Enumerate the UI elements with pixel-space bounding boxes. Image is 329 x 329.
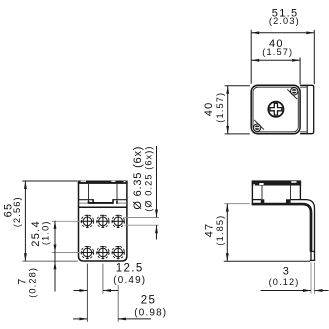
- bracket plate thick bar and bend (side view): [252, 204, 311, 251]
- dim 65 extension line top: [22, 180, 77, 182]
- hidden edge line left: [79, 202, 89, 204]
- svg-text:(0.28): (0.28): [27, 267, 37, 298]
- dim line 25.4 and 7: [54, 221, 56, 292]
- sensor cap inner vertical right: [116, 184, 118, 203]
- svg-text:12.5: 12.5: [116, 263, 144, 275]
- dim line 3: [261, 290, 312, 292]
- hole diameter leader/dim line: [156, 146, 158, 218]
- mounting screw 5 (front view): [97, 246, 110, 259]
- vertical end blob right: [116, 201, 118, 204]
- dim line 51.5: [251, 32, 314, 34]
- svg-text:Ø 6.35 (6x): Ø 6.35 (6x): [132, 146, 144, 210]
- sensor cap inner vertical left: [88, 184, 90, 204]
- dim 51.5 extension lines: [250, 30, 252, 84]
- body inner vertical left (side view): [261, 186, 263, 200]
- svg-text:3: 3: [283, 266, 290, 278]
- hole row extension bottom (gray): [52, 252, 81, 254]
- strip inner edge lines: [300, 86, 307, 88]
- dim line 65: [24, 181, 26, 261]
- dim 47 extension top (gray): [224, 203, 250, 205]
- dim line 12.5: [74, 290, 88, 292]
- svg-text:47: 47: [204, 223, 216, 238]
- bracket bend line (top view): [306, 86, 308, 133]
- notch floor thick line: [88, 202, 113, 204]
- leg cross tick: [310, 250, 315, 252]
- chamfer corner line top-right: [287, 89, 297, 99]
- bottom dim extension lines: [86, 264, 88, 322]
- mounting screw 2 (front view): [97, 215, 110, 228]
- hole row extension top (gray): [52, 220, 81, 222]
- dim line 40 vertical: [227, 86, 229, 134]
- mounting screw 1 (front view): [81, 215, 94, 228]
- svg-text:(2.03): (2.03): [269, 16, 300, 26]
- bracket leg lower inner line: [310, 251, 312, 260]
- mounting screw 3 (front view): [112, 215, 125, 228]
- dim 3 extension lines (gray): [310, 262, 312, 294]
- svg-text:(1.57): (1.57): [215, 92, 225, 123]
- dim line 47: [226, 204, 228, 262]
- step mark left (side view): [261, 199, 265, 205]
- step mark right (side view): [286, 199, 291, 205]
- svg-text:(1.0): (1.0): [40, 220, 50, 245]
- svg-text:(1.57): (1.57): [262, 47, 293, 57]
- sensor body left edge (side view): [251, 181, 253, 205]
- shoulder line right and bend outer surface: [291, 200, 315, 261]
- dim 47 extension bottom: [224, 260, 310, 262]
- bracket/sensor outline (front view): [79, 182, 127, 262]
- center fixing screw: [268, 102, 283, 117]
- svg-text:(0.98): (0.98): [134, 307, 167, 318]
- dim line 25: [73, 318, 87, 320]
- step mark right: [112, 199, 114, 204]
- dim line 40 (top): [251, 59, 300, 61]
- sensor top edge bar (side view): [252, 180, 301, 185]
- dim 65 extension line bottom (gray): [22, 260, 77, 262]
- bracket bend line (front view): [79, 206, 127, 208]
- shoulder line left (side view): [252, 199, 261, 201]
- sensor body right edge (side view): [299, 181, 301, 200]
- svg-text:(Ø 0.25 (6x)): (Ø 0.25 (6x)): [143, 145, 153, 211]
- svg-text:40: 40: [203, 101, 215, 116]
- corner screw bottom-left: [253, 124, 260, 131]
- dim 40 vertical extension lines: [225, 85, 250, 87]
- chamfer corner line bottom-left: [254, 120, 264, 130]
- step mark left: [92, 199, 94, 204]
- sensor housing inner outline (top view): [253, 87, 298, 132]
- svg-text:(0.49): (0.49): [113, 275, 146, 286]
- corner screw top-right: [291, 88, 298, 95]
- vertical end blob left: [88, 201, 90, 204]
- upper shoulder line left: [79, 199, 94, 201]
- mounting screw 4 (front view): [81, 246, 94, 259]
- hidden edge line right: [117, 202, 127, 204]
- svg-text:(0.12): (0.12): [269, 277, 300, 287]
- bracket plate seen from top (right strip): [300, 85, 314, 133]
- sensor top edge bar (front view): [78, 181, 128, 184]
- body inner vertical right (side view): [290, 186, 292, 200]
- hole tangent extension lines (gray): [124, 217, 159, 219]
- sensor housing outer outline (top view): [251, 85, 300, 133]
- svg-text:(1.85): (1.85): [215, 215, 225, 246]
- svg-text:(2.56): (2.56): [12, 196, 22, 227]
- mounting screw 6 (front view): [112, 246, 125, 259]
- upper shoulder line right: [113, 199, 127, 201]
- svg-text:25: 25: [141, 295, 157, 307]
- leg bottom edge: [310, 259, 315, 261]
- dim 40 extension line: [299, 57, 301, 84]
